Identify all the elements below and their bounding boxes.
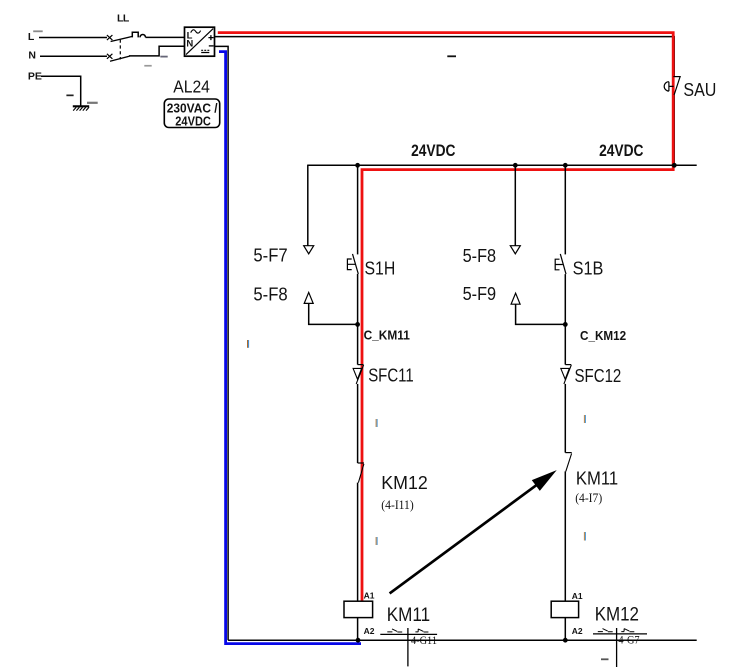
breaker pole1 blade [111, 36, 133, 41]
psu minus terminal [209, 45, 214, 47]
contact SFC11 triangle [353, 368, 362, 379]
svg-text:C_KM12: C_KM12 [580, 328, 626, 343]
wire 5-F7 stem left [307, 165, 309, 246]
pushbutton S1B actuator E [555, 259, 563, 270]
node dot KM11 A2 on 0V [356, 638, 361, 643]
gray tick below breaker [144, 65, 151, 67]
breaker pole1 hinge cross [107, 35, 113, 40]
wire S1H to node [357, 274, 359, 365]
dark tick top middle [447, 55, 456, 57]
wire PE [41, 76, 81, 106]
svg-text:A1: A1 [364, 591, 375, 601]
bus 24VDC [308, 164, 697, 166]
node dot KM12 A2 on 0V [563, 638, 568, 643]
svg-text:KM11: KM11 [387, 605, 430, 626]
svg-text:SAU: SAU [683, 79, 716, 100]
svg-text:A2: A2 [572, 626, 583, 636]
svg-text:5-F7: 5-F7 [253, 245, 287, 266]
interruption arrow out 5-F8 right [510, 246, 520, 254]
wire S1B to node [564, 274, 566, 365]
wire coil KM12 to 0V [564, 618, 566, 641]
crossref KM11 contact glyph 2 [415, 629, 428, 632]
wire coil KM11 to 0V [357, 618, 359, 641]
svg-text:24VDC: 24VDC [175, 113, 211, 128]
crossref KM11 border line [380, 633, 437, 635]
gray tick bottom right [601, 658, 609, 660]
wire KM12 contact to coil [357, 483, 359, 602]
svg-text:5-F8: 5-F8 [463, 245, 497, 266]
wire L phase [39, 37, 107, 39]
svg-text:A2: A2 [364, 626, 375, 636]
svg-text:KM12: KM12 [381, 472, 428, 493]
wire N to PSU input [129, 46, 185, 56]
wire S1H upper [357, 165, 359, 254]
wire red highlighted +24V path [218, 33, 673, 601]
tick wire number upper left branch [376, 419, 378, 427]
svg-text:PE: PE [28, 71, 42, 83]
svg-text:4-G7: 4-G7 [618, 633, 639, 647]
tick wire number lower left branch [376, 537, 378, 545]
pushbutton S1H actuator E [347, 259, 355, 270]
wire SFC11 to KM12 contact [357, 384, 359, 463]
psu sine symbol [191, 30, 201, 33]
contact SFC11 blade [356, 365, 363, 384]
psu AL24 box [185, 27, 215, 56]
contact KM11 bar [565, 452, 571, 454]
tick wire number mid left [247, 340, 249, 348]
interruption arrow out 5-F7 [304, 246, 314, 254]
svg-text:SFC12: SFC12 [575, 365, 622, 386]
crossref KM12 contact glyph 2 [621, 629, 634, 632]
psu diagonal [186, 29, 213, 55]
wire SAU lower black [673, 95, 675, 165]
wire to PSU L input [146, 36, 185, 38]
crossref KM12 contact glyph 1 [598, 629, 613, 632]
svg-text:24VDC: 24VDC [411, 141, 455, 160]
gray tick at N corner [160, 56, 167, 58]
psu plus terminal [208, 35, 213, 40]
svg-text:A1: A1 [572, 591, 583, 601]
crossref KM11 contact glyph 1 [387, 629, 402, 632]
wire from 5-F9 arrow to C_KM12 node [516, 304, 566, 324]
wire SFC12 to KM11 contact [564, 384, 566, 453]
breaker pole1 thermal element [132, 32, 145, 37]
svg-text:LL: LL [117, 13, 130, 25]
svg-text:(4-I7): (4-I7) [575, 491, 602, 505]
coil KM11 box [344, 601, 373, 617]
tick wire number upper right branch [584, 415, 586, 423]
wire S1B upper [564, 165, 566, 254]
wire 5-F8 stem right [514, 165, 516, 245]
wire N neutral [40, 55, 107, 57]
svg-text:S1H: S1H [365, 258, 396, 279]
dark tick left of ground [66, 95, 73, 97]
emergency stop SAU contact bar [673, 76, 680, 78]
emergency stop SAU mushroom actuator [664, 82, 673, 91]
wire 0V black [215, 46, 229, 640]
svg-text:(4-I11): (4-I11) [381, 498, 413, 512]
node dot bus SAU feed [672, 163, 677, 168]
contact SFC12 bar [565, 364, 571, 366]
svg-text:S1B: S1B [573, 258, 604, 279]
svg-text:5-F9: 5-F9 [463, 283, 497, 304]
interruption arrow in 5-F9 [511, 293, 520, 304]
svg-text:C_KM11: C_KM11 [364, 328, 410, 343]
breaker mechanical link dashed [119, 40, 121, 60]
svg-text:L: L [28, 31, 35, 43]
contact KM12 blade [358, 464, 364, 483]
contact SFC12 triangle [561, 368, 570, 379]
wire +24V top black [215, 37, 675, 77]
pushbutton S1B blade [560, 254, 566, 274]
wire KM11 contact to coil [564, 471, 566, 601]
svg-text:5-F8: 5-F8 [253, 283, 287, 304]
node dot bus S1H branch [355, 163, 360, 168]
contact KM11 blade [566, 454, 572, 472]
gray tick above L [33, 30, 43, 32]
pointer arrow annotation [390, 470, 557, 593]
svg-text:KM11: KM11 [576, 468, 618, 489]
crossref KM12 border line [593, 633, 647, 635]
value box 230VAC/24VDC [164, 99, 219, 128]
gray tick right of ground [87, 102, 98, 104]
contact SFC11 bar [358, 364, 364, 366]
svg-text:SFC11: SFC11 [368, 365, 414, 386]
breaker pole2 blade [110, 56, 130, 61]
ground [73, 106, 89, 110]
contact SFC12 blade [564, 365, 571, 384]
psu dc symbol [201, 50, 209, 52]
wire blue highlighted 0V path [219, 52, 361, 644]
interruption arrow in 5-F8 left [304, 292, 313, 303]
svg-text:AL24: AL24 [173, 76, 210, 96]
node C_KM12 dot [563, 322, 568, 327]
node C_KM11 dot [355, 322, 360, 327]
svg-text:N: N [28, 50, 36, 62]
crossref KM12 divider [616, 628, 618, 667]
node dot bus S1B branch [563, 163, 568, 168]
crossref KM11 divider [407, 628, 409, 666]
pushbutton S1H blade [353, 254, 359, 274]
wire from 5-F8 arrow to C_KM11 node [309, 303, 358, 324]
emergency stop SAU blade [674, 77, 680, 95]
breaker pole2 hinge cross [107, 54, 113, 59]
svg-text:N: N [186, 39, 193, 50]
svg-text:KM12: KM12 [595, 604, 639, 625]
node dot bus 5-F8 stem [513, 163, 518, 168]
svg-text:24VDC: 24VDC [599, 141, 643, 160]
bus 0V bottom [228, 639, 697, 641]
contact KM12 bar [358, 462, 364, 464]
tick wire number lower right branch [584, 532, 586, 541]
coil KM12 box [551, 601, 578, 617]
